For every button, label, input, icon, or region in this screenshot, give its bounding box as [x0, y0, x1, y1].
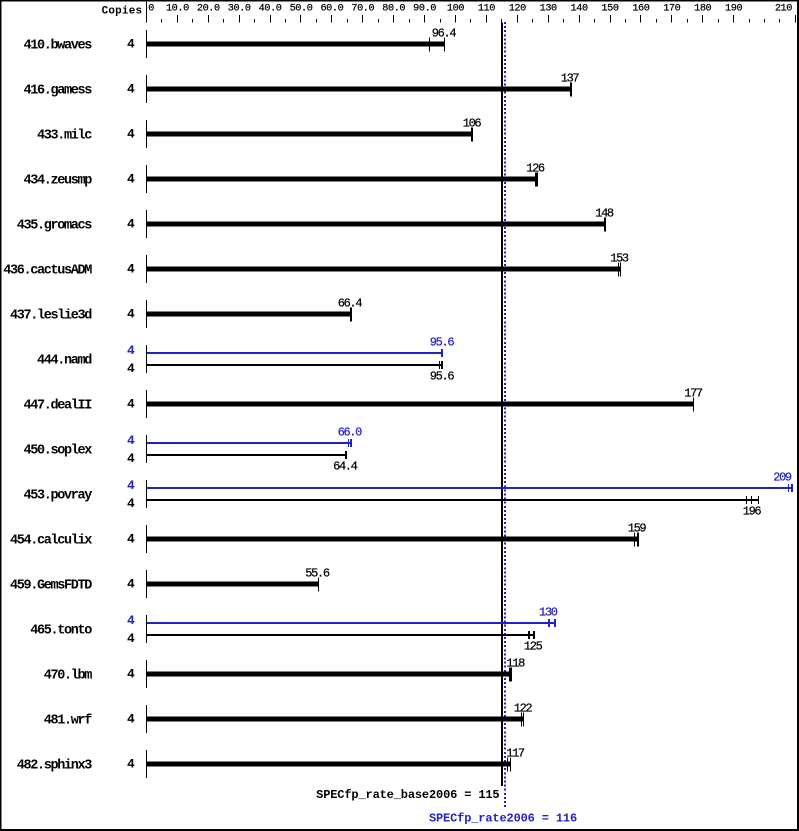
svg-text:4: 4 — [127, 451, 135, 466]
svg-text:Copies: Copies — [102, 6, 143, 18]
svg-text:170: 170 — [663, 4, 680, 15]
svg-text:4: 4 — [127, 577, 135, 592]
svg-text:437.leslie3d: 437.leslie3d — [10, 309, 92, 324]
svg-text:100: 100 — [447, 4, 464, 15]
svg-text:453.povray: 453.povray — [23, 489, 92, 504]
svg-text:95.6: 95.6 — [430, 370, 455, 384]
svg-text:4: 4 — [127, 82, 135, 97]
svg-text:80.0: 80.0 — [382, 4, 405, 15]
svg-text:4: 4 — [127, 307, 135, 322]
svg-text:180: 180 — [694, 4, 711, 15]
svg-text:125: 125 — [524, 640, 543, 654]
svg-text:4: 4 — [127, 172, 135, 187]
svg-text:435.gromacs: 435.gromacs — [17, 219, 93, 234]
svg-text:177: 177 — [684, 387, 703, 401]
svg-text:150: 150 — [601, 4, 618, 15]
svg-text:190: 190 — [725, 4, 742, 15]
svg-text:4: 4 — [127, 397, 135, 412]
svg-text:4: 4 — [127, 433, 135, 448]
svg-text:70.0: 70.0 — [351, 4, 374, 15]
svg-text:4: 4 — [127, 37, 135, 52]
svg-text:4: 4 — [127, 667, 135, 682]
svg-text:436.cactusADM: 436.cactusADM — [3, 264, 92, 279]
svg-text:434.zeusmp: 434.zeusmp — [23, 174, 92, 189]
svg-text:454.calculix: 454.calculix — [10, 534, 92, 549]
svg-text:137: 137 — [561, 72, 580, 86]
svg-text:4: 4 — [127, 613, 135, 628]
svg-text:4: 4 — [127, 217, 135, 232]
svg-text:450.soplex: 450.soplex — [23, 444, 92, 459]
svg-text:159: 159 — [628, 522, 647, 536]
svg-text:4: 4 — [127, 631, 135, 646]
svg-text:4: 4 — [127, 343, 135, 358]
svg-text:4: 4 — [127, 478, 135, 493]
svg-text:4: 4 — [127, 757, 135, 772]
svg-text:10.0: 10.0 — [166, 4, 189, 15]
svg-text:481.wrf: 481.wrf — [44, 714, 93, 729]
svg-text:66.4: 66.4 — [338, 297, 363, 311]
svg-text:433.milc: 433.milc — [37, 129, 92, 144]
svg-text:148: 148 — [595, 207, 614, 221]
svg-text:117: 117 — [506, 747, 525, 761]
svg-text:64.4: 64.4 — [333, 460, 358, 474]
svg-text:153: 153 — [610, 252, 629, 266]
svg-text:210: 210 — [775, 4, 792, 15]
svg-text:30.0: 30.0 — [228, 4, 251, 15]
svg-text:4: 4 — [127, 361, 135, 376]
svg-text:482.sphinx3: 482.sphinx3 — [17, 759, 93, 774]
svg-text:0: 0 — [148, 4, 154, 15]
svg-text:110: 110 — [478, 4, 495, 15]
svg-text:4: 4 — [127, 496, 135, 511]
svg-text:60.0: 60.0 — [320, 4, 343, 15]
svg-text:4: 4 — [127, 712, 135, 727]
svg-text:40.0: 40.0 — [259, 4, 282, 15]
svg-text:66.0: 66.0 — [338, 426, 363, 440]
svg-text:20.0: 20.0 — [197, 4, 220, 15]
svg-text:55.6: 55.6 — [305, 567, 330, 581]
svg-text:96.4: 96.4 — [432, 27, 457, 41]
svg-text:130: 130 — [539, 606, 558, 620]
svg-text:50.0: 50.0 — [290, 4, 313, 15]
svg-text:SPECfp_rate2006 = 116: SPECfp_rate2006 = 116 — [429, 812, 577, 826]
svg-text:196: 196 — [743, 505, 762, 519]
svg-text:118: 118 — [506, 657, 525, 671]
svg-text:4: 4 — [127, 532, 135, 547]
svg-text:160: 160 — [632, 4, 649, 15]
svg-text:106: 106 — [463, 117, 482, 131]
svg-text:410.bwaves: 410.bwaves — [23, 39, 92, 54]
svg-text:122: 122 — [514, 702, 533, 716]
svg-text:SPECfp_rate_base2006 = 115: SPECfp_rate_base2006 = 115 — [316, 788, 499, 802]
svg-text:95.6: 95.6 — [430, 336, 455, 350]
svg-text:120: 120 — [509, 4, 526, 15]
svg-text:126: 126 — [526, 162, 545, 176]
svg-text:465.tonto: 465.tonto — [30, 624, 92, 639]
svg-text:130: 130 — [540, 4, 557, 15]
svg-text:4: 4 — [127, 262, 135, 277]
svg-text:90.0: 90.0 — [413, 4, 436, 15]
svg-text:209: 209 — [773, 471, 792, 485]
svg-text:459.GemsFDTD: 459.GemsFDTD — [10, 579, 92, 594]
svg-text:470.lbm: 470.lbm — [44, 669, 93, 684]
svg-text:444.namd: 444.namd — [37, 354, 92, 369]
svg-text:416.gamess: 416.gamess — [23, 84, 92, 99]
svg-text:447.dealII: 447.dealII — [23, 399, 92, 414]
svg-text:140: 140 — [571, 4, 588, 15]
svg-text:4: 4 — [127, 127, 135, 142]
